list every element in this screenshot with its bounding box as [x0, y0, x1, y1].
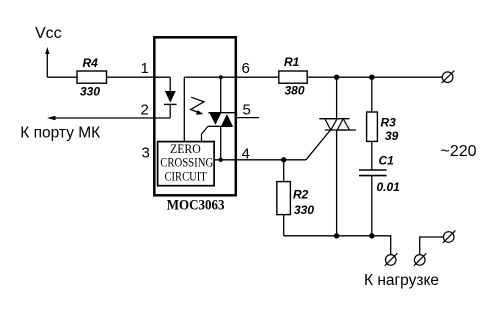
- svg-text:330: 330: [294, 203, 314, 217]
- wire node to R2: [283, 160, 285, 182]
- svg-text:R1: R1: [284, 55, 300, 69]
- resistor R4: [77, 71, 107, 83]
- svg-text:~220: ~220: [441, 143, 477, 160]
- mains terminal top right: [442, 71, 455, 84]
- wire C1 to bus: [371, 176, 373, 236]
- detector inner box lines: [184, 77, 235, 141]
- svg-text:1: 1: [141, 60, 149, 77]
- svg-text:ZERO: ZERO: [170, 142, 201, 156]
- resistor R3: [367, 112, 378, 141]
- junction node bus/C1: [369, 233, 374, 238]
- svg-text:MOC3063: MOC3063: [167, 197, 225, 213]
- pin 5 stub: [237, 117, 260, 119]
- load terminal right: [414, 253, 427, 266]
- svg-text:5: 5: [243, 102, 251, 119]
- gate wire photo-triac to zero crossing box: [202, 126, 209, 141]
- resistor R2: [277, 182, 291, 215]
- wire R4 to pin 1: [107, 76, 171, 78]
- wire pin 6 to R1: [237, 76, 280, 78]
- light arrow from LED: [191, 97, 204, 114]
- optocoupler IC U1 MOC3063 body: [154, 37, 236, 195]
- LED D1 inside IC: [164, 77, 177, 118]
- wire R3 to C1: [371, 141, 373, 170]
- wire R3 top: [371, 77, 373, 112]
- capacitor C1: [359, 170, 387, 176]
- wire photo-triac to pin4 node: [220, 126, 222, 160]
- resistor R1: [279, 71, 307, 83]
- junction node pin4 internal: [219, 158, 223, 162]
- svg-text:К нагрузке: К нагрузке: [364, 272, 439, 289]
- svg-text:2: 2: [141, 102, 149, 119]
- arrow to MK port: [47, 116, 56, 120]
- svg-text:39: 39: [385, 129, 399, 143]
- svg-text:CIRCUIT: CIRCUIT: [165, 169, 208, 183]
- svg-text:CROSSING: CROSSING: [160, 155, 213, 169]
- svg-text:380: 380: [285, 84, 305, 98]
- wire node to triac MT2: [336, 77, 338, 119]
- mains terminal bottom right: [443, 230, 456, 243]
- junction node at R3 top: [369, 75, 374, 80]
- svg-text:3: 3: [142, 145, 150, 162]
- bottom bus wire: [284, 236, 391, 255]
- svg-text:0.01: 0.01: [377, 180, 401, 194]
- junction node pin4/R2: [281, 157, 286, 162]
- junction node bus/triac: [334, 233, 339, 238]
- junction node at triac top: [334, 75, 339, 80]
- wire R1 to mains terminal: [307, 76, 442, 78]
- svg-text:R2: R2: [293, 188, 309, 202]
- svg-text:R4: R4: [83, 56, 99, 70]
- wire zero box to pin 4: [214, 159, 236, 161]
- wire pin 2 to port: [53, 117, 170, 119]
- wire junction to photo-triac: [220, 77, 222, 113]
- load terminal left: [385, 253, 398, 266]
- junction node on pin6 line inside: [219, 75, 223, 79]
- svg-text:C1: C1: [379, 154, 395, 168]
- photo-triac inside IC: [208, 113, 235, 127]
- wire R2 to bus: [283, 215, 285, 236]
- svg-text:Vcc: Vcc: [35, 25, 62, 42]
- wire triac MT1 to bottom bus: [336, 130, 338, 236]
- wire Vcc to R4: [47, 76, 78, 78]
- svg-text:330: 330: [80, 85, 100, 99]
- zero crossing circuit box: [158, 142, 215, 186]
- svg-text:R3: R3: [381, 116, 397, 130]
- wire load terminal to mains terminal: [420, 237, 444, 255]
- svg-text:К порту МК: К порту МК: [20, 125, 100, 142]
- Vcc arrow: [45, 47, 49, 77]
- gate wire from pin4 to triac: [237, 130, 331, 160]
- triac VS1: [319, 119, 356, 130]
- svg-text:6: 6: [242, 60, 250, 77]
